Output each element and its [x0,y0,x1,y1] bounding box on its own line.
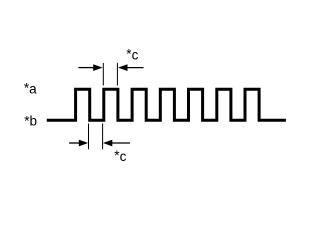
svg-text:*c: *c [126,47,138,63]
bottom dimension arrow left (points right) [69,140,88,147]
top dimension arrow right (points left) [118,64,143,71]
svg-text:*c: *c [114,148,126,164]
top dimension arrow left (points right) [78,64,102,71]
svg-text:*b: *b [24,114,37,129]
bottom dimension arrow right (points left) [103,140,130,147]
bottom extension line right (rising edge of pulse 2) [102,124,104,150]
svg-text:*a: *a [24,81,37,97]
top extension line right (falling edge of pulse 2) [116,63,118,86]
bottom extension line left (falling edge of pulse 1) [88,124,90,150]
waveform trace: square wave signal, 7 pulses [47,89,286,120]
top extension line left (rising edge of pulse 2) [102,63,104,86]
